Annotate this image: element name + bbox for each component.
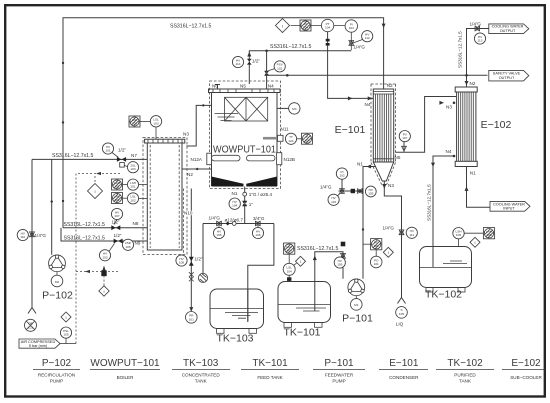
valve HV-104 valve body (filled)	[242, 201, 247, 207]
svg-text:N10: N10	[184, 211, 193, 216]
svg-text:1/2”: 1/2”	[195, 256, 203, 261]
svg-text:FEED TANK: FEED TANK	[257, 375, 283, 380]
svg-text:1/2”: 1/2”	[118, 148, 126, 153]
legend TK-103	[172, 358, 230, 384]
flag SAFETY VALVE OUTPUT	[489, 70, 529, 81]
wire N5 vapor crossover to E-102 N3	[396, 97, 457, 153]
svg-text:N2: N2	[187, 172, 193, 177]
svg-text:PUMP: PUMP	[50, 379, 63, 384]
wire flow arrow into E-102 N3	[439, 101, 444, 105]
boiler heating wedge left (filled)	[212, 177, 244, 187]
instrument LAL-102 boxed	[112, 193, 123, 204]
svg-text:N4: N4	[365, 102, 371, 107]
instrument PR-101	[186, 312, 198, 324]
wire safety valve header	[268, 74, 488, 76]
boiler WOWPUT-101 shell	[209, 89, 281, 186]
node junction N2	[196, 168, 198, 170]
wire air supply line	[60, 343, 76, 345]
pump P-102 recirculation pump	[49, 255, 66, 272]
wire TK-102 inlet dip tube	[432, 247, 434, 268]
svg-text:103: 103	[132, 121, 137, 125]
wire flow arrow into E-101 N2	[382, 24, 386, 28]
instrument LAL-104 boxed	[284, 243, 295, 254]
svg-text:1/4”G: 1/4”G	[209, 216, 221, 221]
svg-text:CONDENSER: CONDENSER	[389, 375, 419, 380]
svg-text:107: 107	[114, 214, 119, 218]
node junction on left riser	[62, 62, 64, 64]
wire PI-103 riser	[350, 32, 352, 50]
svg-text:E−102: E−102	[511, 358, 541, 369]
interlock diamond I large	[88, 176, 103, 199]
valve HV-108 valve (filled)	[189, 257, 194, 266]
svg-text:I: I	[300, 260, 301, 264]
svg-text:SS316L−12.7x1.5: SS316L−12.7x1.5	[170, 24, 212, 30]
wire boiler N1 drain down	[244, 187, 246, 224]
svg-text:N1: N1	[357, 161, 363, 166]
valve distribution right	[255, 221, 260, 226]
svg-text:I: I	[65, 316, 66, 320]
instrument PI-104 boxed	[300, 20, 311, 31]
node junction x52	[51, 200, 53, 202]
instrument 2SD-105	[122, 239, 133, 250]
svg-text:N7: N7	[131, 153, 137, 158]
svg-text:1/4”G: 1/4”G	[470, 21, 482, 26]
wire flow arrow on N4 line	[348, 96, 353, 100]
wire pump suction riser x52	[51, 159, 53, 254]
instrument OB-101 hose connection	[25, 319, 37, 331]
valve needle valve X	[189, 272, 194, 281]
svg-text:1/4”G: 1/4”G	[383, 226, 395, 231]
valve HV-111 valve on liquid outlet	[399, 230, 404, 235]
pump P-101 feedwater pump	[348, 279, 365, 296]
svg-text:102: 102	[339, 174, 344, 178]
instrument HV-110	[17, 229, 28, 240]
wire left riser x63	[62, 152, 64, 228]
interlock diamond I TK-102	[470, 237, 480, 247]
wire TK-101 suction riser to P-101	[315, 252, 343, 311]
motor M2	[51, 272, 63, 287]
svg-text:WOWPUT−101: WOWPUT−101	[90, 358, 160, 369]
svg-text:1/4”G: 1/4”G	[354, 45, 366, 50]
wire N3 vapor balance line	[187, 105, 212, 146]
nozzle N11 thermowell	[263, 135, 283, 141]
svg-text:105: 105	[368, 192, 373, 196]
wire flow arrow at N3	[382, 184, 386, 189]
svg-text:101: 101	[28, 325, 33, 329]
motor M1	[351, 296, 363, 311]
instrument PI-103	[345, 20, 357, 32]
svg-text:PURIFIED: PURIFIED	[454, 373, 476, 378]
tank TK-101 feed tank	[278, 282, 331, 328]
svg-text:N1: N1	[470, 170, 476, 175]
flag COOLING WATER INPUT	[490, 201, 530, 211]
wire PT-104 tap riser to E-101 N4	[328, 32, 374, 99]
svg-text:104: 104	[303, 25, 308, 29]
legend TK-101	[241, 358, 299, 380]
instrument LSL-104	[283, 254, 295, 275]
sub-cooler E-102 shell and tubes	[455, 87, 477, 167]
svg-text:114: 114	[236, 62, 241, 66]
instrument HV-101	[102, 143, 118, 158]
node junction on left riser lower	[62, 121, 64, 123]
svg-text:SUB−COOLER: SUB−COOLER	[510, 375, 542, 380]
wire blowdown distribution header	[203, 224, 274, 323]
wire E-102 N1 cooling water inlet	[467, 167, 491, 208]
svg-text:1/2”: 1/2”	[252, 59, 260, 64]
instrument HV-115	[328, 193, 341, 206]
svg-text:M1: M1	[354, 303, 359, 307]
svg-text:I: I	[388, 251, 389, 255]
instrument HV-109	[334, 257, 345, 268]
nozzle N12A flange	[207, 153, 212, 165]
tank TK-102 purified tank	[420, 247, 472, 293]
svg-text:TANK: TANK	[195, 379, 208, 384]
valve PI-103 root valve	[349, 41, 354, 46]
wire N2 balance line	[182, 168, 212, 170]
fitting vent muffler	[198, 273, 207, 282]
level column insulation outline	[143, 138, 187, 255]
wire N9 feed line	[61, 228, 147, 241]
boiler heater port slot right	[247, 155, 276, 161]
svg-text:I: I	[103, 290, 104, 294]
svg-text:RECIRCULATION: RECIRCULATION	[38, 373, 75, 378]
svg-text:I: I	[474, 241, 475, 245]
svg-text:1/2”: 1/2”	[112, 219, 120, 224]
svg-text:109: 109	[337, 263, 342, 267]
svg-text:P−102: P−102	[42, 290, 73, 302]
svg-text:12A: 12A	[288, 139, 294, 143]
svg-text:M2: M2	[55, 280, 60, 284]
instrument HV-112	[353, 31, 373, 43]
interlock diamond I top	[276, 19, 290, 33]
svg-text:E−101: E−101	[335, 124, 366, 136]
instrument HV-105	[213, 226, 224, 239]
svg-text:103: 103	[349, 26, 354, 30]
nozzle N6 stub	[215, 85, 220, 90]
svg-text:N4: N4	[268, 84, 274, 89]
wire instrument row y25.5	[291, 25, 346, 27]
signal arrowheads	[85, 172, 106, 273]
svg-text:TK−101: TK−101	[252, 358, 288, 369]
svg-text:P−101: P−101	[324, 358, 354, 369]
svg-text:102: 102	[130, 198, 135, 202]
svg-text:FEEDWATER: FEEDWATER	[325, 373, 354, 378]
instrument PSL-105	[60, 327, 71, 338]
instrument HV-107	[111, 208, 122, 224]
node junction on safety header	[286, 74, 289, 77]
svg-text:TK−102: TK−102	[447, 358, 483, 369]
svg-text:SS316L−12.7x1.5: SS316L−12.7x1.5	[64, 222, 106, 228]
svg-text:INPUT: INPUT	[503, 207, 515, 211]
svg-text:107: 107	[402, 136, 407, 140]
valve PV-107 root valve	[402, 146, 407, 151]
svg-text:N5: N5	[240, 84, 246, 89]
svg-text:101: 101	[189, 317, 194, 321]
svg-text:E−101: E−101	[389, 358, 419, 369]
svg-text:SAFETY VALVE: SAFETY VALVE	[493, 72, 521, 76]
svg-text:111: 111	[409, 233, 414, 237]
svg-text:5 bar (min): 5 bar (min)	[29, 344, 48, 348]
wire flow arrow down N4	[431, 163, 435, 167]
svg-text:TANK: TANK	[459, 379, 472, 384]
instrument HV-114	[232, 56, 243, 67]
svg-text:N1: N1	[232, 191, 238, 196]
legend E-102	[502, 358, 545, 380]
wire flow arrow up suction	[313, 256, 317, 261]
instrument TT-12A	[285, 133, 296, 144]
boiler demister pack with X bracing	[225, 97, 268, 121]
svg-text:TK−101: TK−101	[283, 327, 320, 339]
motor M3 agitator	[277, 103, 300, 114]
instrument LSH-105	[453, 228, 464, 247]
interlock diamond I air	[61, 312, 71, 322]
svg-text:105: 105	[125, 245, 130, 249]
wire N10 blowdown line	[190, 189, 192, 312]
nozzle N4 riser	[266, 51, 268, 89]
svg-text:SS316L−12.7x1.5: SS316L−12.7x1.5	[52, 153, 94, 159]
svg-text:102: 102	[114, 198, 119, 202]
svg-text:SS316L−12.7x1.5: SS316L−12.7x1.5	[297, 246, 339, 252]
svg-text:I: I	[282, 24, 283, 28]
svg-text:OUTPUT: OUTPUT	[499, 76, 515, 80]
svg-text:SS316L−12.7x1.5: SS316L−12.7x1.5	[458, 31, 463, 68]
valve HV on condensate	[358, 189, 363, 194]
svg-text:106: 106	[255, 233, 260, 237]
tank TK-103 concentrated tank	[210, 289, 264, 333]
instrument HV-113	[474, 33, 485, 44]
svg-text:LIQ: LIQ	[396, 322, 404, 327]
svg-text:N3: N3	[183, 131, 189, 136]
flag COOLING WATER OUTPUT	[489, 24, 529, 34]
svg-text:1/4”G: 1/4”G	[35, 233, 47, 238]
svg-text:101: 101	[374, 244, 379, 248]
svg-text:SS316L−12.7x1.5: SS316L−12.7x1.5	[270, 44, 312, 50]
legend P-102	[33, 358, 80, 384]
svg-text:104: 104	[325, 26, 330, 30]
boiler heating wedge right (filled)	[246, 177, 277, 187]
boiler heater port slot left	[212, 155, 241, 161]
instrument LAH-101 boxed	[112, 179, 123, 190]
level column shell	[145, 139, 185, 250]
fitting connector LSL to tank	[287, 275, 291, 281]
svg-text:3/4”G: 3/4”G	[253, 216, 265, 221]
legend WOWPUT-101	[90, 358, 160, 380]
svg-text:PUMP: PUMP	[332, 379, 345, 384]
node black fitting	[226, 222, 230, 226]
svg-text:12A: 12A	[304, 139, 310, 143]
wire drain open arrow	[28, 308, 36, 314]
svg-text:OUTPUT: OUTPUT	[500, 29, 516, 33]
wire flow arrow up relief riser	[247, 52, 251, 57]
valve HV-110 valve body	[30, 232, 35, 237]
svg-text:N4: N4	[446, 149, 452, 154]
svg-text:N2: N2	[387, 83, 393, 88]
legend E-101	[379, 358, 428, 380]
wire flow arrow up N1	[465, 187, 469, 191]
valve HV-114 valve body	[247, 59, 252, 65]
valve sample valve 1/4G	[340, 189, 345, 194]
svg-text:M3: M3	[292, 107, 297, 111]
valve HV-109 valve body	[341, 253, 346, 258]
svg-text:E−102: E−102	[481, 119, 512, 131]
instrument PI-102	[336, 168, 347, 179]
instrument HV-115b at condensate row	[363, 243, 371, 245]
valve root valve marks on PT riser	[326, 39, 330, 42]
svg-text:1/4”G: 1/4”G	[320, 184, 332, 189]
svg-text:WOWPUT−101: WOWPUT−101	[213, 143, 276, 155]
instrument PT-104	[321, 19, 333, 31]
svg-text:104: 104	[287, 269, 292, 273]
wire insulation dashes beside N10	[183, 189, 185, 255]
svg-text:103: 103	[153, 121, 158, 125]
instrument LSH-101	[123, 179, 148, 190]
wire E-101 N1 condensate to P-101	[363, 167, 376, 279]
svg-text:N12A: N12A	[191, 157, 203, 162]
wire arrow into E-102 N2	[465, 81, 469, 85]
svg-text:1/2”: 1/2”	[114, 233, 122, 238]
flag AIR COMPRESSED	[19, 339, 60, 348]
svg-text:N5: N5	[395, 155, 401, 160]
svg-text:112: 112	[365, 36, 370, 40]
instrument HV-108	[176, 255, 187, 266]
svg-text:105: 105	[63, 333, 68, 337]
svg-text:TK−103: TK−103	[183, 358, 219, 369]
svg-text:N2: N2	[470, 81, 476, 86]
interlock diamond I small bottom	[99, 286, 109, 296]
valve N7 feed valve (filled)	[117, 157, 126, 162]
instrument TI-12A boxed	[297, 133, 313, 144]
svg-text:105: 105	[399, 312, 404, 316]
svg-text:N3: N3	[388, 183, 394, 188]
instrument PSV-101	[264, 61, 285, 76]
instrument HV-104	[229, 198, 240, 209]
instrument HV-111	[406, 227, 417, 238]
condenser E-101 cone bottom	[373, 158, 393, 160]
svg-text:102: 102	[102, 255, 107, 259]
wire HV-110 drain line x32	[31, 159, 33, 307]
svg-text:N8: N8	[133, 221, 139, 226]
legend P-101	[313, 358, 365, 384]
wire feed line N7	[32, 158, 147, 160]
instrument LSL-102	[123, 193, 148, 204]
wire N8 feed line	[63, 227, 147, 229]
instrument LAH-105 boxed	[464, 228, 494, 239]
svg-text:1”G / ø25.4: 1”G / ø25.4	[249, 192, 273, 197]
instrument LSL-103	[140, 116, 162, 140]
node junction N4 riser on y50 line	[265, 50, 268, 53]
wire E-101 N3 condensate down to S-105	[384, 181, 401, 298]
fitting orifice circle	[232, 222, 236, 226]
svg-text:104: 104	[232, 204, 237, 208]
wire liquid sample arrow	[398, 298, 406, 304]
valve distribution left	[217, 221, 222, 226]
svg-text:103: 103	[130, 167, 135, 171]
fitting spec break square suction	[341, 242, 346, 247]
signal dashed LAH/LAL to interlock	[76, 174, 120, 344]
instrument HV-106	[252, 226, 263, 239]
svg-text:101: 101	[277, 66, 282, 70]
svg-text:TK−103: TK−103	[216, 333, 253, 345]
svg-text:SS316L−12.7x1.5: SS316L−12.7x1.5	[427, 184, 432, 221]
svg-text:115: 115	[331, 200, 336, 204]
condenser E-101 insulation outline	[371, 84, 396, 185]
instrument HV-102	[99, 244, 114, 261]
instrument LAL-103 boxed	[129, 116, 140, 127]
fitting connector square N7	[120, 163, 125, 168]
svg-text:P−102: P−102	[42, 358, 72, 369]
condenser E-101 shell and tubes	[373, 89, 393, 162]
instrument S-105 sampler	[396, 307, 408, 319]
node tee safety header x E-102 riser	[465, 74, 468, 77]
valve N9 valve (filled)	[114, 239, 123, 244]
instrument PO-101	[370, 250, 382, 268]
svg-text:101: 101	[130, 185, 135, 189]
valve N8 valve (filled)	[111, 225, 120, 230]
node junction x363	[362, 228, 364, 230]
svg-text:P−101: P−101	[342, 313, 373, 325]
svg-text:N3: N3	[446, 105, 452, 110]
svg-text:I: I	[94, 190, 95, 194]
condenser E-101 cone bottom	[373, 162, 393, 181]
svg-text:108: 108	[179, 261, 184, 265]
svg-text:113: 113	[478, 39, 483, 43]
svg-text:N6: N6	[212, 84, 218, 89]
svg-text:105: 105	[456, 233, 461, 237]
svg-text:110: 110	[20, 235, 25, 239]
instrument 2SL-103	[124, 162, 138, 173]
valve cooling water outlet valve	[475, 26, 480, 31]
interlock diamond I TK-101	[294, 256, 306, 266]
wire E-102 N2 riser and cooling water outlet	[467, 29, 490, 88]
svg-text:1”: 1”	[249, 202, 254, 207]
svg-text:TK−102: TK−102	[425, 289, 462, 301]
nozzle N12B flange	[277, 153, 282, 165]
boiler water level marks	[215, 114, 239, 121]
fitting sight glass on N1	[243, 192, 247, 196]
svg-text:101: 101	[114, 184, 119, 188]
svg-text:N12B: N12B	[284, 157, 296, 162]
wire arrow into PR-101	[189, 307, 193, 311]
node junction x63	[62, 200, 64, 202]
svg-text:101: 101	[105, 149, 110, 153]
instrument PV-107	[399, 131, 410, 142]
wire TK-103 dip tube	[247, 289, 249, 321]
svg-text:CONCENTRATED: CONCENTRATED	[182, 373, 221, 378]
legend TK-102	[436, 358, 494, 384]
svg-text:105: 105	[486, 233, 491, 237]
svg-text:N11: N11	[281, 127, 290, 132]
instrument HV-101 condensate	[365, 186, 376, 197]
wire flow arrow on N1 stub	[367, 165, 372, 169]
wire E-102 N4 to TK-102	[433, 156, 455, 247]
wire PSL riser	[65, 338, 67, 343]
svg-text:104: 104	[287, 249, 292, 253]
node junction N3 line	[202, 104, 204, 106]
svg-text:101: 101	[374, 262, 379, 266]
svg-text:N9: N9	[135, 241, 141, 246]
svg-text:105: 105	[216, 233, 221, 237]
svg-text:BOILER: BOILER	[117, 375, 135, 380]
svg-text:SS316L−12.7x1.5: SS316L−12.7x1.5	[64, 236, 106, 242]
wire steam header top (SS316L)	[63, 18, 384, 152]
fitting spec break square	[351, 189, 355, 193]
wire PI-102 tap line	[339, 179, 364, 191]
wire boiler N5 relief riser to instrument line	[249, 51, 351, 84]
interlock diamond I at PC-101	[383, 247, 393, 257]
instrument PC-101 boxed	[371, 239, 382, 250]
valve control valve on signal line	[101, 270, 106, 276]
boiler WOWPUT-101 insulation outline	[210, 81, 281, 189]
